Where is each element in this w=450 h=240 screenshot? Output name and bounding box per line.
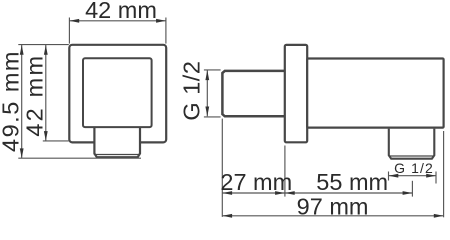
- arrow top of 49.5mm: [20, 45, 24, 55]
- tick left of small G 1/2 dimension: [388, 172, 390, 181]
- svg-text:G 1/2: G 1/2: [179, 61, 205, 121]
- side view inlet pipe G 1/2: [222, 71, 285, 116]
- dimension line 97mm: [222, 215, 443, 217]
- arrow right of 97mm: [434, 214, 444, 218]
- arrow bottom of 49.5mm: [20, 148, 24, 158]
- arrow bottom of G 1/2 side: [205, 107, 209, 117]
- front view pipe end chamfer line: [94, 154, 141, 156]
- dimension line 27mm and 55mm: [222, 192, 412, 194]
- dimension line 42mm top: [69, 20, 165, 22]
- svg-text:G 1/2: G 1/2: [394, 160, 434, 176]
- extension line right (body end) for 97mm: [443, 131, 445, 217]
- dimension line G 1/2 side: [206, 70, 208, 116]
- svg-text:42 mm: 42 mm: [85, 0, 157, 23]
- svg-text:27 mm: 27 mm: [220, 169, 292, 195]
- svg-text:97 mm: 97 mm: [297, 194, 369, 220]
- dimension line small G 1/2: [389, 175, 437, 177]
- arrow left of 27mm: [222, 191, 232, 195]
- front view outer flange square: [69, 45, 166, 143]
- dimension line 49.5mm left: [21, 45, 23, 158]
- extension line bottom of 49.5mm: [18, 157, 141, 159]
- svg-text:42 mm: 42 mm: [22, 54, 48, 137]
- side view body tube: [307, 59, 443, 128]
- arrow right of 27mm: [275, 191, 285, 195]
- side view wall plate: [285, 45, 307, 142]
- svg-text:49.5 mm: 49.5 mm: [0, 50, 24, 152]
- arrow right of small G 1/2: [426, 174, 436, 178]
- arrow left of 97mm: [222, 214, 232, 218]
- arrow left of 42mm top: [69, 19, 79, 23]
- front view inner square: [83, 58, 152, 127]
- extension line outlet centre for 55mm: [411, 181, 413, 197]
- arrow right of 42mm top: [156, 19, 166, 23]
- extension line bottom of 42mm left: [43, 140, 69, 142]
- extension line top of G 1/2 side dimension: [204, 69, 221, 71]
- extension line top-left of 42mm top dimension: [68, 18, 70, 44]
- extension line wall plate face for 27mm / 55mm: [284, 146, 286, 197]
- arrow left of 55mm: [285, 191, 295, 195]
- front view outlet pipe stub: [94, 128, 140, 158]
- extension line bottom of G 1/2 side dimension: [204, 116, 221, 118]
- extension line left (pipe end) for 27mm and 97mm: [221, 119, 223, 217]
- tick right of small G 1/2 dimension: [435, 172, 437, 184]
- arrow right of 55mm: [403, 191, 413, 195]
- dimension line 42mm left: [45, 45, 47, 141]
- svg-text:55 mm: 55 mm: [316, 169, 388, 195]
- extension line top-right of 42mm top dimension: [165, 18, 167, 44]
- extension line top shared (49.5mm and 42mm left): [18, 44, 69, 46]
- arrow top of 42mm left: [44, 45, 48, 55]
- arrow bottom of 42mm left: [44, 131, 48, 141]
- arrow left of small G 1/2: [389, 174, 399, 178]
- side view outlet chamfer line: [389, 155, 433, 157]
- side view bottom outlet G 1/2: [389, 129, 435, 159]
- arrow top of G 1/2 side: [205, 70, 209, 80]
